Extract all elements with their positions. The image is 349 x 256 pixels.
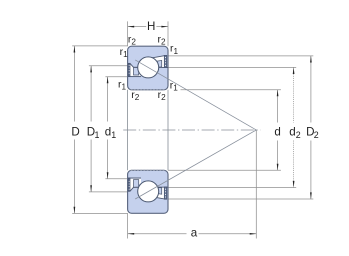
lower section pockets/cage/seals (mirrored) — [128, 178, 168, 199]
a dimension line — [128, 233, 187, 235]
svg-text:2: 2 — [131, 38, 136, 47]
d dimension line — [277, 90, 279, 123]
D dimension line — [73, 46, 75, 122]
d arrowhead down — [277, 164, 279, 171]
d extension line top — [181, 89, 281, 91]
D2 dimension line — [310, 56, 312, 123]
H extension line right (bearing face) — [167, 21, 169, 46]
D1 arrowhead up — [90, 66, 92, 73]
svg-text:1: 1 — [122, 83, 127, 92]
lower contact angle line to pressure centre — [135, 130, 256, 199]
d2 arrowhead up — [293, 67, 295, 74]
lower bearing section — [128, 170, 168, 213]
svg-text:2: 2 — [314, 130, 319, 140]
svg-text:1: 1 — [173, 84, 178, 93]
a extension line right (pressure centre) — [255, 130, 257, 239]
d1 arrowhead down — [107, 172, 109, 179]
D1 arrowhead down — [90, 185, 92, 192]
svg-text:1: 1 — [123, 50, 128, 59]
H arrowhead right — [161, 26, 168, 28]
svg-text:2: 2 — [296, 130, 301, 140]
upper contact angle line to pressure centre — [135, 60, 256, 130]
d1 extension line top — [105, 76, 127, 78]
svg-text:H: H — [147, 20, 155, 33]
D arrowhead down — [74, 207, 76, 214]
svg-text:1: 1 — [111, 130, 116, 140]
D2 arrowhead up — [310, 56, 312, 63]
left bearing face line between sections — [127, 90, 129, 171]
d1 extension line bottom — [105, 178, 127, 180]
svg-text:d: d — [105, 125, 111, 138]
upper section bore edge (dashed light) — [131, 89, 165, 91]
upper ball — [138, 57, 159, 78]
svg-text:d: d — [289, 125, 295, 138]
right bearing face line between sections — [167, 90, 169, 171]
D1 extension line bottom — [89, 191, 128, 193]
a arrowhead left — [128, 233, 135, 235]
bearing axis centerline (dash-dot) — [123, 129, 261, 131]
lower section bore edge (dashed light) — [131, 169, 165, 171]
lower ball — [138, 181, 159, 202]
H arrowhead left — [128, 26, 135, 28]
svg-text:2: 2 — [161, 38, 166, 47]
d arrowhead up — [277, 90, 279, 97]
svg-text:1: 1 — [174, 47, 179, 56]
H extension line left (bearing face) — [127, 21, 129, 46]
svg-text:2: 2 — [135, 93, 140, 102]
svg-text:2: 2 — [161, 93, 166, 102]
svg-text:d: d — [274, 125, 280, 138]
upper bearing section — [128, 46, 168, 90]
d2 arrowhead down — [293, 181, 295, 188]
upper section ring block — [128, 46, 168, 90]
svg-text:a: a — [191, 227, 198, 240]
D2 extension line top — [168, 55, 313, 57]
D2 arrowhead down — [310, 192, 312, 199]
svg-text:D: D — [71, 125, 79, 138]
d1 arrowhead up — [107, 77, 109, 84]
D extension line bottom — [72, 212, 127, 214]
D1 dimension line — [90, 66, 92, 122]
svg-text:1: 1 — [95, 130, 100, 140]
D extension line top — [72, 45, 127, 47]
a arrowhead right — [250, 233, 257, 235]
D2 extension line bottom — [168, 198, 313, 200]
d2 dimension line (dotted) — [293, 67, 295, 122]
D1 extension line top — [89, 65, 128, 67]
a extension line left (bearing face) — [127, 213, 129, 238]
H dimension line — [128, 26, 147, 28]
lower section ring block — [128, 170, 168, 213]
d1 dimension line — [107, 77, 109, 122]
d2 extension line top — [168, 66, 296, 68]
upper section pockets/cage/seals — [128, 55, 168, 76]
D arrowhead up — [74, 46, 76, 53]
d extension line bottom — [168, 169, 281, 171]
d2 extension line bottom — [168, 187, 296, 189]
